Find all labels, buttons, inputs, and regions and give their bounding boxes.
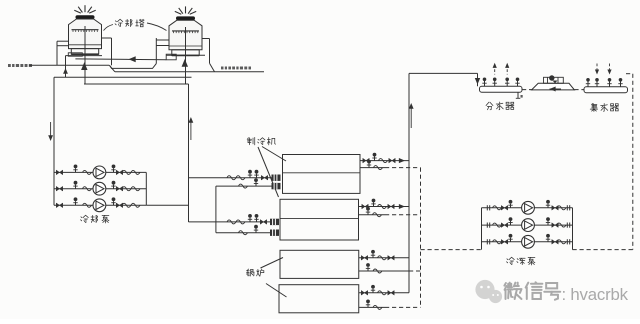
- flow arrow down (left downcomer): [50, 122, 52, 139]
- wire B2 return + valves: [359, 306, 385, 308]
- wire inter-tower lower pipe: [110, 64, 157, 69]
- chiller CH2: [280, 199, 359, 240]
- flange CH2 lower port: [270, 230, 279, 236]
- wire CT2 left riser: [155, 38, 157, 64]
- cooling pump row 2 pipe+fittings: [54, 188, 146, 190]
- wire CH2 return + valves: [359, 214, 386, 216]
- dashed supply arrow 1: [494, 65, 496, 75]
- cooling tower CT2: [175, 11, 182, 14]
- label 集水器: [590, 104, 597, 112]
- wire chilled pump suction manifold: [481, 208, 483, 250]
- fitting box near CT2: [166, 54, 176, 60]
- distributor riser valve 2: [494, 79, 496, 87]
- leader line to CH2: [258, 147, 279, 197]
- chilled pump row 3 pipe+fittings: [482, 241, 573, 243]
- fitting box under CT1: [68, 53, 82, 56]
- wire CT1 left stub upper: [57, 40, 69, 42]
- wire B2 supply + valves: [359, 292, 409, 294]
- leader line to B2: [266, 284, 287, 298]
- wire U riser: [215, 186, 217, 233]
- chilled pump row 1 pipe+fittings: [482, 207, 573, 209]
- flow arrow up (right riser): [190, 119, 192, 140]
- wire CT1 center pipe: [84, 26, 86, 84]
- flange CH1 upper port: [272, 175, 281, 181]
- wire diagonal to drain line: [109, 65, 115, 72]
- wire CT1 under-basin shelf: [66, 55, 103, 57]
- label drain outlet (tiny): [221, 67, 224, 70]
- wire condenser return header: [54, 76, 192, 78]
- wire main return riser V2 (dashed): [420, 168, 422, 308]
- wire CT2 center pipe: [185, 27, 187, 84]
- wire return downcomer V3 (dashed): [632, 74, 634, 250]
- wire CT2 under-basin shelf: [166, 54, 205, 56]
- distributor drain stub: [517, 92, 519, 98]
- leader line to CT1: [104, 25, 114, 31]
- dashed return arrow 2: [609, 64, 611, 74]
- collector riser valve 2: [596, 79, 598, 87]
- wire supply header top: [409, 72, 478, 74]
- watermark 信: [526, 282, 543, 299]
- collector riser valve 4: [620, 79, 622, 87]
- arrow down into distributor: [475, 78, 480, 84]
- cooling pump row 3 pipe+fittings: [54, 204, 146, 206]
- wire CT2 diagonal drop: [210, 63, 215, 72]
- label 冷却泵: [81, 215, 89, 222]
- wire manifold to chiller riser: [146, 204, 188, 206]
- flange CH2 upper port: [270, 219, 279, 225]
- wire condenser supply CH2 + valves: [189, 221, 271, 223]
- svg-text:: hvacrbk: : hvacrbk: [562, 285, 629, 304]
- wire CT2 left stub lower: [156, 45, 169, 47]
- boiler B1: [280, 250, 359, 278]
- wire CH1 lower port branch + valves: [216, 185, 272, 187]
- wire return branch to chilled pumps (dashed): [421, 249, 482, 251]
- wire B1 supply + valves: [359, 257, 409, 259]
- leader line to CT2: [147, 23, 167, 31]
- bypass line dashes left: [522, 89, 533, 91]
- watermark 微: [504, 283, 521, 299]
- leader line to CH1: [262, 147, 286, 162]
- bypass pump motor: [549, 75, 554, 80]
- wire CT1 left riser: [56, 41, 58, 65]
- flange CH1 lower port: [272, 183, 281, 189]
- wire right loop riser: [188, 84, 190, 222]
- wire CH2 return dashed: [385, 214, 421, 216]
- wire B1 return dashed: [409, 270, 421, 272]
- wire discharge to V3 (dashed): [573, 249, 633, 251]
- distributor riser valve 3: [506, 79, 508, 87]
- cooling pump row 1 pipe+fittings: [54, 171, 146, 173]
- wire left loop downcomer: [53, 77, 55, 205]
- distributor riser valve 1: [484, 79, 486, 87]
- arrow up on basin-left drop: [63, 68, 68, 74]
- wire chilled pump discharge manifold: [572, 208, 574, 250]
- bypass line dashes right: [574, 89, 584, 91]
- arrow left on inter-tower pipe: [129, 56, 136, 62]
- label 锅炉: [246, 269, 254, 276]
- wire inter-tower pipe: [75, 58, 166, 61]
- wire CT1 left stub lower: [57, 45, 69, 47]
- bypass pedestal: [532, 83, 575, 90]
- watermark 号: [544, 283, 560, 300]
- wire make-up feed: [29, 64, 109, 66]
- wire CT2 left stub upper: [156, 39, 169, 41]
- label 冷冻泵: [507, 257, 515, 264]
- arrow left on bypass: [550, 86, 556, 91]
- water distributor 分水器: [480, 86, 523, 92]
- wire CT2 right stub: [202, 38, 209, 40]
- wire tower outlet header: [84, 83, 189, 85]
- wire CT1 right stub: [102, 37, 112, 39]
- wire CT2 right riser: [209, 39, 211, 64]
- flow arrow up V1: [410, 105, 412, 128]
- arrow up CT2 center: [182, 59, 188, 67]
- label 分水器: [486, 102, 493, 110]
- water collector 集水器: [584, 87, 628, 93]
- wire CH1 return dashed: [385, 167, 421, 169]
- label 冷却塔: [115, 19, 123, 26]
- wire CH1 return + valves: [360, 167, 385, 169]
- label city make-up water (tiny): [8, 64, 11, 67]
- arrow right CH2 out: [399, 204, 405, 209]
- chilled pump row 2 pipe+fittings: [482, 224, 573, 226]
- chiller CH1: [283, 155, 361, 194]
- dashed return arrow 1: [596, 64, 598, 74]
- wire CH2 lower port branch + valves: [216, 232, 270, 234]
- wire drop to distributor: [477, 73, 479, 86]
- dashed supply arrow 2: [506, 65, 508, 75]
- wire CT1 basin-left drop: [65, 56, 67, 78]
- distributor riser valve 4: [517, 79, 519, 87]
- wire CH1 chilled out + valves: [360, 160, 409, 162]
- label 制冷机: [247, 137, 255, 145]
- wechat icon: [475, 280, 502, 303]
- wire B2 return dashed: [385, 306, 421, 308]
- wire condenser supply CH1 + valves: [189, 177, 272, 179]
- arrow up CT1 center: [81, 62, 87, 70]
- wire cooling pump discharge manifold: [145, 172, 147, 205]
- wire collector return corner (dashed): [626, 73, 633, 75]
- wire B1 return + valves: [359, 270, 409, 272]
- wire main supply riser V1: [408, 73, 410, 292]
- boiler B2: [279, 285, 359, 313]
- leader line to B1: [261, 258, 284, 269]
- wire CH2 chilled out + valves: [359, 206, 410, 208]
- wire drain line: [115, 71, 264, 73]
- cooling tower CT1: [74, 10, 81, 13]
- collector riser valve 3: [609, 79, 611, 87]
- bypass pump body: [544, 77, 564, 83]
- arrow right CH1 out: [399, 158, 405, 163]
- wire CT1 right riser: [111, 38, 113, 65]
- collector riser valve 1: [587, 79, 589, 87]
